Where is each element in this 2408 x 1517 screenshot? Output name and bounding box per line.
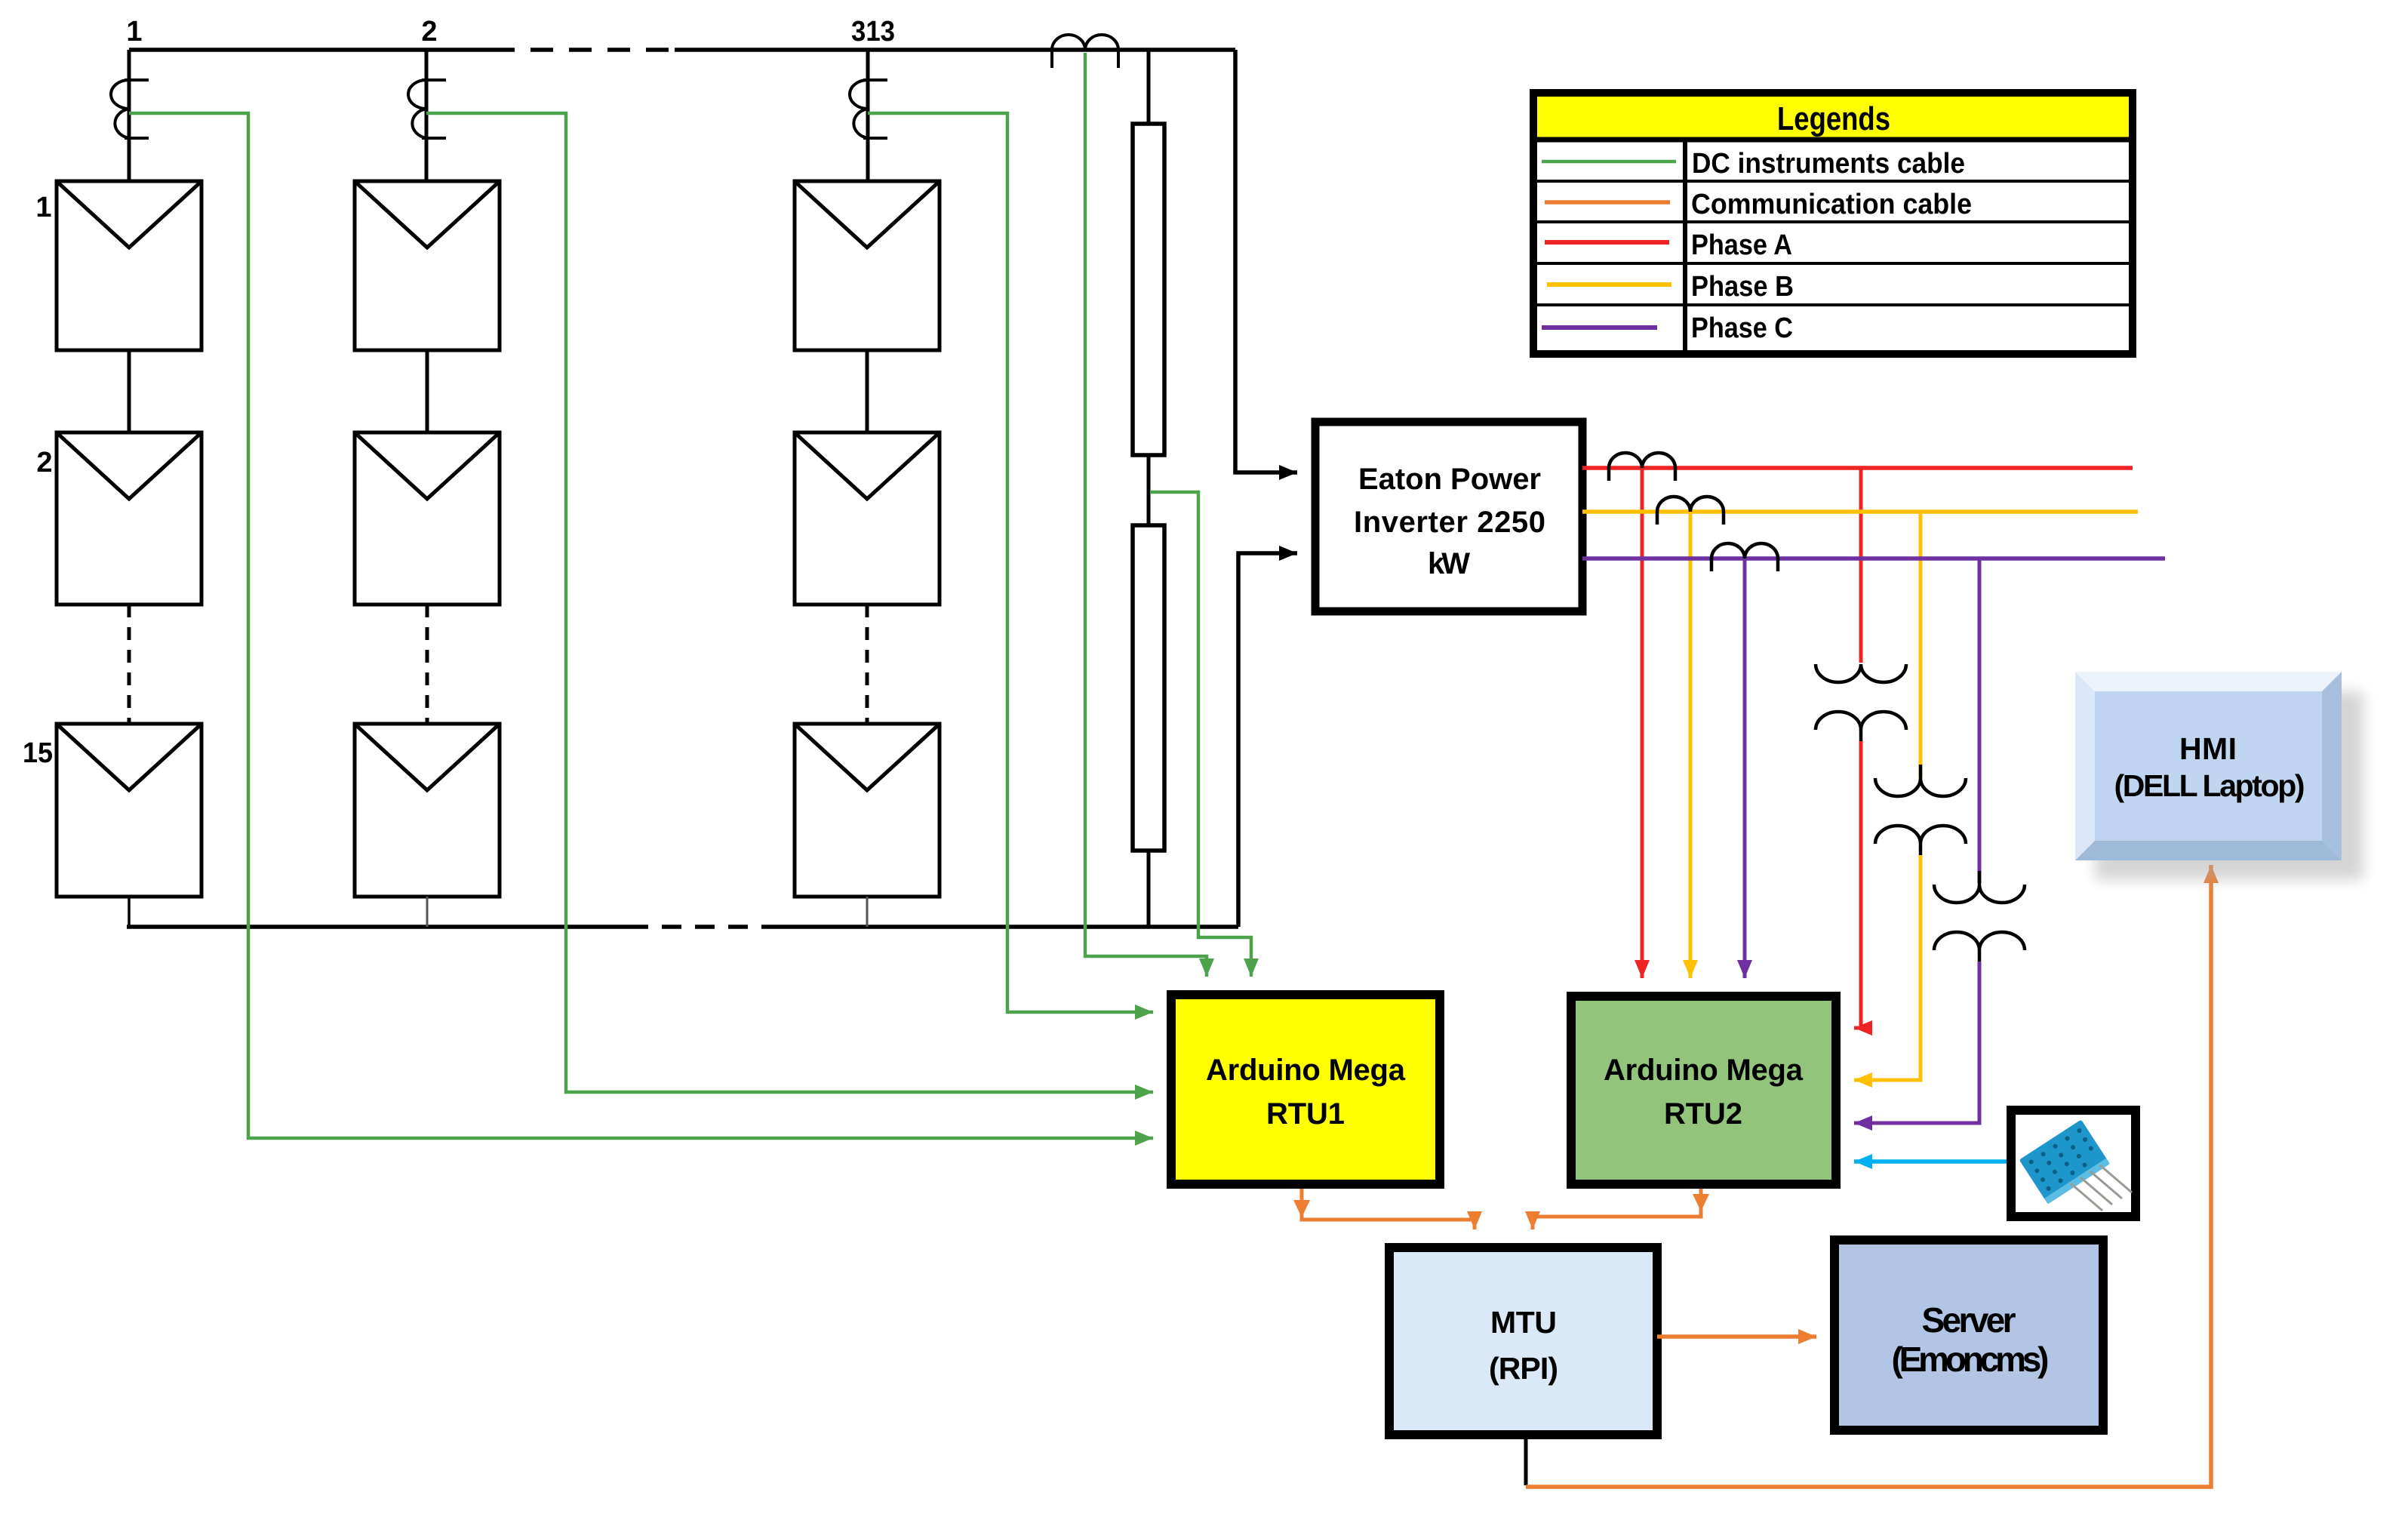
MTU box	[1389, 1248, 1657, 1435]
svg-text:RTU1: RTU1	[1266, 1097, 1345, 1131]
wire string 313 drop	[866, 50, 870, 181]
wire phase C horizontal	[1582, 556, 2165, 561]
CT string 2	[408, 80, 446, 138]
wire string1 to bottom bus	[128, 897, 131, 927]
wire orange RTU2 to MTU	[1533, 1189, 1701, 1229]
svg-text:(Emoncms): (Emoncms)	[1892, 1340, 2050, 1379]
CT phase A	[1609, 453, 1675, 481]
MTU label	[1489, 1305, 1558, 1386]
PV panel string1 row15	[57, 724, 201, 897]
HMI box bevel	[2075, 672, 2342, 860]
wire phase A vertical via transformer to RTU2 right	[1859, 468, 1863, 663]
svg-text:Server: Server	[1922, 1300, 2016, 1340]
wire between fuses	[1147, 455, 1151, 525]
svg-text:kW: kW	[1428, 547, 1470, 580]
legends header	[1537, 97, 2129, 137]
CT string 313	[850, 80, 887, 138]
wire phase B vertical via transformer to RTU2 right	[1919, 512, 1923, 777]
wire phase C vertical to RTU2 top	[1743, 558, 1747, 978]
wire string313 row1-row2	[866, 350, 869, 432]
svg-text:1: 1	[35, 192, 51, 223]
svg-text:Phase C: Phase C	[1691, 312, 1793, 344]
wire green fuse tap to RTU1	[1150, 492, 1251, 977]
fuse drop from top bus	[1147, 50, 1151, 124]
fuse F2	[1133, 525, 1164, 851]
wire bottom DC bus solid right	[763, 925, 1238, 929]
inverter box U1	[1315, 422, 1582, 611]
PV panel string2 row2	[355, 432, 500, 605]
svg-text:2: 2	[36, 447, 52, 478]
wire string 1 drop	[128, 50, 131, 181]
legend swatch orange	[1545, 200, 1670, 205]
DHT11 sensor box	[2011, 1110, 2136, 1217]
PV panel string313 row15	[795, 724, 940, 897]
RTU1 label	[1206, 1054, 1406, 1131]
transformer phase B	[1875, 765, 1966, 855]
Server box	[1834, 1240, 2103, 1430]
wire top bus down to inverter input 1	[1235, 50, 1297, 472]
wire fuse F2 to bottom bus	[1147, 851, 1151, 927]
svg-text:313: 313	[851, 16, 895, 48]
svg-text:Inverter 2250: Inverter 2250	[1354, 506, 1545, 539]
CT phase C	[1711, 543, 1778, 571]
wire green string2 CT to RTU1	[426, 113, 1153, 1092]
legend swatch purple	[1542, 325, 1657, 330]
CT top bus	[1052, 35, 1118, 68]
legend swatch green	[1542, 160, 1676, 164]
wire orange RTU1 to MTU	[1302, 1189, 1475, 1229]
wire phase A horizontal	[1582, 466, 2133, 470]
wire string313 to bottom bus	[866, 897, 869, 927]
PV panel string2 row15	[355, 724, 500, 897]
wire cyan DHT11 to RTU2	[1854, 1159, 2008, 1164]
svg-text:Phase A: Phase A	[1691, 229, 1792, 261]
HMI label	[2114, 731, 2305, 803]
wire phase B horizontal	[1582, 509, 2138, 514]
RTU1 box	[1171, 995, 1440, 1184]
wire string1 row1-row2	[128, 350, 131, 432]
PV panel string2 row1	[355, 181, 500, 350]
wire string2 row1-row2	[426, 350, 429, 432]
wire top DC bus dashed	[492, 48, 675, 52]
fuse F1	[1133, 124, 1164, 455]
wire orange MTU to HMI	[1526, 865, 2211, 1487]
svg-text:Arduino Mega: Arduino Mega	[1604, 1054, 1804, 1087]
svg-text:HMI: HMI	[2179, 731, 2237, 766]
svg-text:1: 1	[126, 16, 142, 48]
RTU2 box	[1571, 996, 1836, 1184]
PV panel string313 row1	[795, 181, 940, 350]
transformer phase A	[1816, 664, 1906, 741]
wire phase B vertical to RTU2 top	[1689, 512, 1693, 978]
wire string1 row2-row15 dashed	[128, 605, 131, 724]
wire string2 to bottom bus	[426, 897, 429, 927]
wire green string313 CT to RTU1	[868, 113, 1153, 1012]
legends column separator	[1683, 140, 1687, 354]
svg-text:Arduino Mega: Arduino Mega	[1206, 1054, 1406, 1087]
wire string2 row2-row15 dashed	[426, 605, 429, 724]
PV panel string1 row1	[57, 181, 201, 350]
PV panel string313 row2	[795, 432, 940, 605]
Server label	[1892, 1300, 2050, 1379]
wire bottom bus up to inverter input 2	[1238, 553, 1297, 927]
legend swatch yellow	[1547, 282, 1671, 287]
PV panel string1 row2	[57, 432, 201, 605]
svg-text:(RPI): (RPI)	[1489, 1351, 1558, 1386]
svg-text:Eaton Power: Eaton Power	[1358, 463, 1541, 496]
wire string 2 drop	[425, 50, 429, 181]
wire top DC bus solid right	[675, 48, 1235, 52]
CT string 1	[111, 80, 149, 138]
svg-text:Communication cable: Communication cable	[1691, 189, 1972, 220]
HMI shadow	[2095, 691, 2363, 880]
inverter label	[1354, 463, 1545, 580]
wire phase C vertical via transformer to RTU2 right	[1978, 558, 1982, 883]
wire bottom DC bus dashed	[629, 925, 763, 929]
RTU2 label	[1604, 1054, 1804, 1131]
svg-text:Legends: Legends	[1777, 100, 1890, 137]
wire string313 row2-row15 dashed	[866, 605, 869, 724]
wire phase A vertical to RTU2 top	[1641, 468, 1644, 978]
wire bottom DC bus solid left	[127, 925, 629, 929]
transformer phase C	[1934, 871, 2025, 962]
legends table frame	[1533, 93, 2133, 354]
wire green string1 CT to RTU1	[129, 113, 1153, 1138]
svg-text:RTU2: RTU2	[1664, 1097, 1742, 1131]
legends row lines	[1533, 181, 2133, 305]
wire top DC bus solid left	[129, 48, 492, 52]
wire green top bus CT to RTU1	[1085, 53, 1207, 977]
CT phase B	[1657, 497, 1724, 525]
svg-text:MTU: MTU	[1490, 1305, 1557, 1340]
svg-text:DC instruments cable: DC instruments cable	[1692, 148, 1965, 180]
svg-text:(DELL Laptop): (DELL Laptop)	[2114, 768, 2305, 803]
svg-text:Phase B: Phase B	[1691, 271, 1794, 303]
DHT11 sensor icon	[2019, 1119, 2132, 1211]
svg-text:2: 2	[421, 16, 437, 48]
legend swatch red	[1545, 240, 1669, 245]
svg-text:15: 15	[23, 737, 53, 769]
wire MTU bottom black	[1524, 1435, 1528, 1485]
wire orange MTU to Server	[1657, 1334, 1816, 1339]
